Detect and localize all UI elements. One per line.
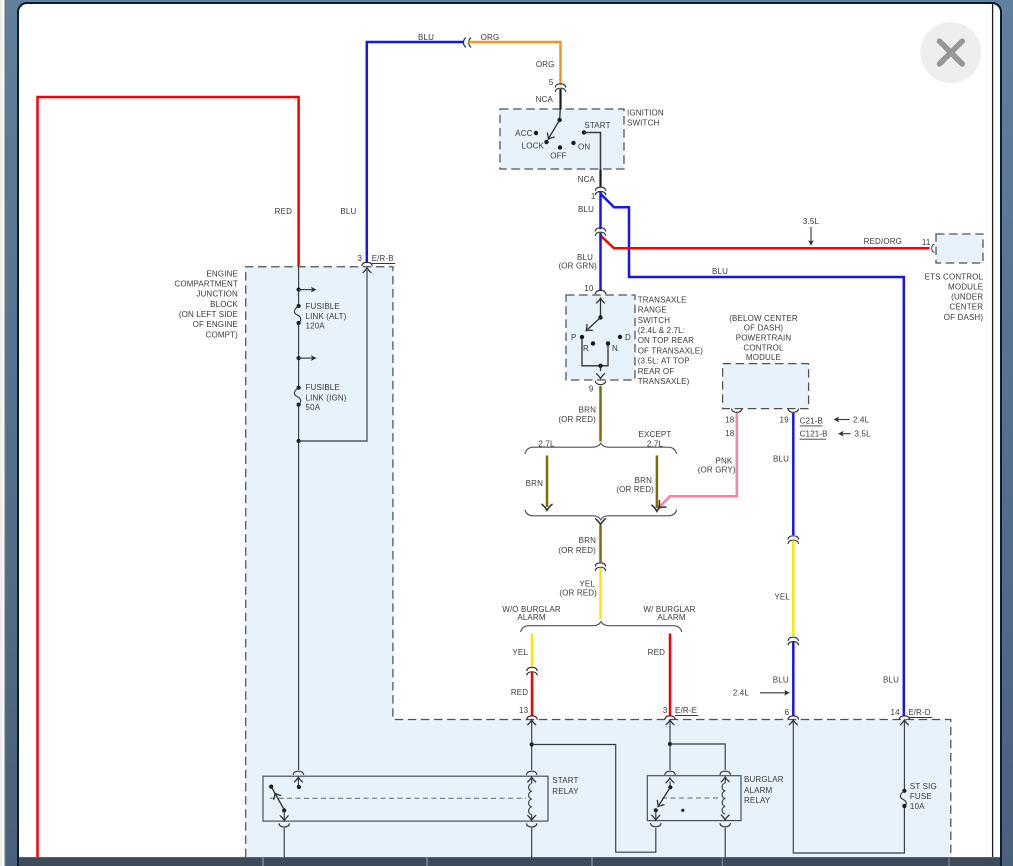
- svg-text:ALARM: ALARM: [517, 613, 545, 622]
- transaxle range switch box: [566, 295, 635, 380]
- svg-text:NCA: NCA: [536, 95, 554, 104]
- svg-text:13: 13: [519, 706, 529, 715]
- svg-text:RED: RED: [511, 688, 528, 697]
- svg-text:1: 1: [591, 192, 596, 201]
- svg-text:6: 6: [785, 708, 790, 717]
- ETS control module box: [936, 234, 983, 263]
- svg-text:BLU: BLU: [340, 207, 356, 216]
- connector (inline, blu to yel): [788, 536, 798, 539]
- connector PCM pin 18: [732, 409, 742, 412]
- svg-text:YEL: YEL: [579, 580, 595, 589]
- wire: blu from PCM pin 19: [792, 413, 795, 535]
- svg-text:3: 3: [357, 254, 362, 263]
- svg-text:3.5L: 3.5L: [803, 217, 820, 226]
- wire: yel (or red): [599, 568, 602, 620]
- connector (inline, yel to red): [527, 667, 537, 670]
- start relay coil: [528, 777, 536, 782]
- svg-text:ACC: ACC: [515, 129, 532, 138]
- svg-text:ORG: ORG: [536, 60, 555, 69]
- connector (inline, yel to blu): [788, 637, 798, 640]
- svg-text:RED/ORG: RED/ORG: [864, 237, 902, 246]
- svg-text:14: 14: [890, 708, 900, 717]
- svg-text:OFF: OFF: [550, 151, 566, 160]
- svg-text:2.7L: 2.7L: [538, 439, 555, 448]
- connector (( on blue/orange wire: [463, 38, 465, 48]
- svg-text:ST SIG: ST SIG: [910, 782, 937, 791]
- burglar alarm relay box: [647, 776, 741, 821]
- svg-text:ORG: ORG: [481, 33, 500, 42]
- connector above start relay coil: [527, 771, 537, 774]
- wire: red to 13: [531, 672, 534, 716]
- start relay internal dashed line: [270, 797, 526, 799]
- svg-text:(OR GRY): (OR GRY): [698, 466, 736, 475]
- svg-text:BLU: BLU: [712, 267, 728, 276]
- branch to E/R-B output: [299, 270, 367, 441]
- svg-text:OF TRANSAXLE): OF TRANSAXLE): [638, 346, 704, 355]
- svg-text:RED: RED: [648, 648, 665, 657]
- junction feed down to start relay: [298, 441, 300, 770]
- connector 5: [555, 84, 565, 87]
- brace split burglar alarm: [521, 622, 682, 632]
- connector pin 6 junction block: [788, 716, 798, 719]
- engine compartment junction block (fill): [246, 267, 951, 857]
- branch arrow 2: [299, 357, 313, 359]
- svg-text:RELAY: RELAY: [552, 787, 579, 796]
- svg-text:COMPT): COMPT): [206, 330, 239, 339]
- far-left light strip: [0, 0, 5, 866]
- svg-text:YEL: YEL: [512, 648, 528, 657]
- brace merge: [525, 510, 677, 520]
- svg-text:(2.4L & 2.7L:: (2.4L & 2.7L:: [638, 326, 685, 335]
- svg-text:RANGE: RANGE: [638, 306, 667, 315]
- svg-text:5: 5: [549, 78, 554, 87]
- junction block internals: feed from red: [298, 267, 300, 290]
- svg-text:CENTER: CENTER: [949, 303, 983, 312]
- svg-text:E/R-D: E/R-D: [908, 708, 931, 717]
- svg-text:BLU: BLU: [773, 676, 789, 685]
- svg-text:(ON LEFT SIDE: (ON LEFT SIDE: [179, 310, 238, 319]
- svg-text:BLU: BLU: [578, 205, 594, 214]
- connector 10: [595, 290, 605, 293]
- svg-text:BLU: BLU: [577, 253, 593, 262]
- wire: red battery feed loop: [38, 97, 299, 858]
- svg-text:2.4L: 2.4L: [853, 415, 870, 424]
- svg-text:(BELOW CENTER: (BELOW CENTER: [729, 314, 798, 323]
- wire: blu to 6: [792, 642, 795, 717]
- svg-text:OF ENGINE: OF ENGINE: [193, 320, 238, 329]
- connector (inline, brn to yel): [595, 563, 605, 566]
- svg-text:OF DASH): OF DASH): [744, 324, 784, 333]
- svg-text:YEL: YEL: [774, 592, 790, 601]
- wire: red to ETS control module: [601, 236, 930, 249]
- connector below start relay coil: [527, 824, 537, 827]
- svg-text:TRANSAXLE: TRANSAXLE: [638, 295, 687, 304]
- svg-text:OF DASH): OF DASH): [944, 313, 984, 322]
- diagram right divider line: [992, 4, 994, 857]
- wire: blue (or grn) down to transaxle switch: [599, 233, 602, 290]
- svg-text:P: P: [571, 333, 577, 342]
- svg-text:C121-B: C121-B: [800, 430, 828, 439]
- svg-text:BLU: BLU: [883, 676, 899, 685]
- svg-text:(OR RED): (OR RED): [558, 415, 596, 424]
- svg-text:ON TOP REAR: ON TOP REAR: [638, 336, 694, 345]
- connector below start relay switch: [279, 824, 289, 827]
- svg-text:POWERTRAIN: POWERTRAIN: [736, 334, 792, 343]
- connector above burglar relay switch: [665, 771, 675, 774]
- wire from 3 E/R-E into burglar relay: [666, 720, 674, 725]
- svg-text:(OR RED): (OR RED): [559, 588, 597, 597]
- wire: brn left branch: [546, 456, 549, 508]
- wire: brn (or red): [599, 386, 602, 442]
- svg-text:120A: 120A: [306, 322, 326, 331]
- svg-text:10A: 10A: [910, 802, 925, 811]
- svg-text:SWITCH: SWITCH: [638, 316, 671, 325]
- fusible link (IGN) 50A: [297, 386, 301, 390]
- svg-text:BURGLAR: BURGLAR: [744, 775, 784, 784]
- wire: red w/ burglar alarm to 3 E/R-E: [669, 634, 672, 717]
- svg-text:BLU: BLU: [773, 454, 789, 463]
- svg-text:(UNDER: (UNDER: [951, 293, 983, 302]
- svg-text:LINK (IGN): LINK (IGN): [306, 393, 347, 402]
- svg-text:2.4L: 2.4L: [733, 689, 750, 698]
- connector above burglar relay coil: [720, 771, 730, 774]
- svg-text:3: 3: [663, 706, 668, 715]
- svg-text:R: R: [583, 344, 589, 353]
- svg-text:(3.5L: AT TOP: (3.5L: AT TOP: [638, 357, 690, 366]
- svg-text:FUSE: FUSE: [910, 792, 932, 801]
- start relay switch: [294, 777, 302, 782]
- svg-text:11: 11: [922, 238, 931, 247]
- wire: pnk (or gry) from PCM pin 18: [660, 413, 737, 507]
- lone contact dot: [681, 809, 684, 812]
- svg-text:START: START: [552, 776, 578, 785]
- wire: blue branch to far right and down: [601, 194, 904, 717]
- connector 11 at ETS module: [932, 244, 934, 252]
- connector 9: [595, 381, 605, 384]
- svg-text:E/R-E: E/R-E: [675, 706, 697, 715]
- svg-text:50A: 50A: [306, 403, 321, 412]
- wire: yel right column: [792, 541, 795, 637]
- brace split 2.7L / except 2.7L: [525, 443, 677, 454]
- 3.5L pointer arrow: [810, 227, 812, 243]
- svg-text:BRN: BRN: [635, 476, 652, 485]
- svg-text:IGNITION: IGNITION: [627, 108, 664, 117]
- svg-text:RED: RED: [275, 207, 292, 216]
- branch to burglar relay coil: [670, 744, 725, 770]
- svg-text:RELAY: RELAY: [744, 796, 771, 805]
- svg-text:BRN: BRN: [526, 479, 543, 488]
- engine compartment junction block (dashed border): [246, 267, 951, 857]
- svg-text:E/R-B: E/R-B: [372, 254, 394, 263]
- svg-text:C21-B: C21-B: [800, 416, 823, 425]
- svg-text:BLOCK: BLOCK: [210, 300, 238, 309]
- svg-text:CONTROL: CONTROL: [743, 343, 784, 352]
- wire: START output: [584, 133, 601, 170]
- wire: brn (or red) below merge: [599, 525, 602, 562]
- svg-text:FUSIBLE: FUSIBLE: [306, 383, 340, 392]
- svg-text:(OR RED): (OR RED): [616, 485, 654, 494]
- svg-text:ON: ON: [578, 142, 590, 151]
- svg-text:COMPARTMENT: COMPARTMENT: [174, 280, 238, 289]
- svg-text:3.5L: 3.5L: [855, 430, 872, 439]
- svg-text:MODULE: MODULE: [948, 283, 983, 292]
- svg-text:ALARM: ALARM: [744, 786, 772, 795]
- ST SIG fuse 10A: [902, 789, 906, 793]
- svg-text:10: 10: [584, 284, 594, 293]
- wire: yel w/o burglar alarm: [531, 634, 534, 667]
- burglar alarm relay internal dashed line: [662, 797, 719, 799]
- wire: brn (or red) right branch: [656, 456, 659, 509]
- svg-text:START: START: [584, 121, 610, 130]
- svg-text:2.7L: 2.7L: [647, 439, 664, 448]
- connector 3 E/R-B: [362, 262, 372, 265]
- wire: blue top: [367, 42, 464, 262]
- svg-text:LOCK: LOCK: [522, 141, 545, 150]
- svg-text:(OR RED): (OR RED): [558, 546, 596, 555]
- wire from 13 to start relay coil: [528, 720, 536, 725]
- svg-text:MODULE: MODULE: [746, 353, 781, 362]
- svg-text:N: N: [612, 344, 618, 353]
- svg-text:9: 9: [589, 384, 594, 393]
- connector below burglar relay switch: [651, 824, 661, 827]
- svg-text:JUNCTION: JUNCTION: [196, 290, 238, 299]
- svg-text:ALARM: ALARM: [657, 613, 685, 622]
- svg-text:BLU: BLU: [418, 33, 434, 42]
- svg-text:18: 18: [725, 429, 735, 438]
- connector pin 13 junction block: [527, 716, 537, 719]
- U link 6 to 14 with ST SIG fuse: [789, 720, 797, 725]
- link start relay coil to burglar relay switch: [532, 745, 656, 853]
- svg-text:EXCEPT: EXCEPT: [639, 430, 672, 439]
- fusible link (ALT) 120A: [297, 304, 301, 308]
- svg-text:LINK (ALT): LINK (ALT): [306, 312, 347, 321]
- connector 1 (inline): [595, 187, 605, 190]
- connector pin 14 E/R-D junction block: [899, 716, 909, 719]
- connector pin 3 E/R-E junction block: [665, 716, 675, 719]
- transaxle range switch internals: [597, 298, 605, 303]
- svg-text:BRN: BRN: [579, 536, 596, 545]
- svg-text:BRN: BRN: [579, 405, 596, 414]
- svg-text:ENGINE: ENGINE: [206, 269, 238, 278]
- connector PCM pin 19: [788, 409, 798, 412]
- svg-text:D: D: [625, 333, 631, 342]
- connector (inline, blue to red/blue): [595, 228, 605, 231]
- svg-text:TRANSAXLE): TRANSAXLE): [638, 377, 690, 386]
- svg-text:REAR OF: REAR OF: [638, 367, 675, 376]
- powertrain control module box: [723, 364, 809, 409]
- svg-text:NCA: NCA: [578, 175, 596, 184]
- svg-text:19: 19: [779, 415, 789, 424]
- 2.4L pointer arrow: [760, 692, 787, 694]
- burglar relay coil: [721, 777, 729, 782]
- ignition switch box: [500, 109, 624, 169]
- svg-text:PNK: PNK: [715, 456, 732, 465]
- wire: orange: [469, 42, 561, 85]
- wire: NCA black into ignition switch: [559, 89, 561, 110]
- connector below burglar relay coil: [720, 824, 730, 827]
- svg-text:FUSIBLE: FUSIBLE: [306, 302, 340, 311]
- svg-text:ETS CONTROL: ETS CONTROL: [925, 272, 984, 281]
- svg-text:18: 18: [725, 415, 735, 424]
- svg-text:SWITCH: SWITCH: [627, 118, 660, 127]
- start relay box: [263, 776, 548, 821]
- branch arrow 1: [299, 289, 313, 291]
- wire: blue from connector 1 down and branch right: [599, 192, 602, 229]
- connector above start relay: [293, 771, 303, 774]
- svg-text:(OR GRN): (OR GRN): [558, 262, 597, 271]
- ignition switch internals: [559, 110, 562, 120]
- burglar relay switch: [666, 778, 674, 783]
